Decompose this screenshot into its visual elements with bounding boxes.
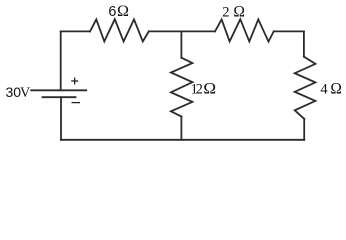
wire left branch upper <box>60 31 62 90</box>
wire top-right segment <box>274 30 304 32</box>
svg-text:4: 4 <box>320 81 328 97</box>
wire middle branch upper <box>180 31 182 57</box>
voltage source 30V battery top plate (positive) <box>30 89 87 91</box>
wire left branch lower <box>60 97 62 140</box>
label 6Ω <box>108 3 129 20</box>
minus sign of source <box>72 102 81 104</box>
label 30V <box>6 84 32 101</box>
svg-text:30: 30 <box>6 84 22 100</box>
svg-text:2: 2 <box>222 4 229 20</box>
wire bottom <box>61 139 304 141</box>
label 4Ω <box>320 81 342 98</box>
svg-text:Ω: Ω <box>330 81 342 98</box>
svg-text:Ω: Ω <box>203 81 216 98</box>
svg-text:2: 2 <box>196 81 203 97</box>
resistor 4Ω zigzag <box>295 57 316 119</box>
resistor 12Ω zigzag <box>171 58 193 117</box>
svg-text:6: 6 <box>108 4 116 20</box>
wire top-left segment <box>61 30 90 32</box>
svg-text:Ω: Ω <box>233 3 245 20</box>
wire top-middle segment <box>149 30 215 32</box>
voltage source 30V battery bottom plate (negative) <box>42 96 77 98</box>
resistor 6Ω zigzag <box>90 19 149 41</box>
wire middle branch lower <box>180 117 182 140</box>
wire right branch lower <box>303 119 305 140</box>
label 12Ω <box>191 81 216 98</box>
svg-text:V: V <box>20 85 31 101</box>
plus sign of source <box>71 80 78 82</box>
label 2 Ω <box>222 3 245 20</box>
svg-text:Ω: Ω <box>117 3 129 20</box>
wire right branch upper <box>303 31 305 56</box>
resistor 2Ω zigzag <box>215 19 274 41</box>
